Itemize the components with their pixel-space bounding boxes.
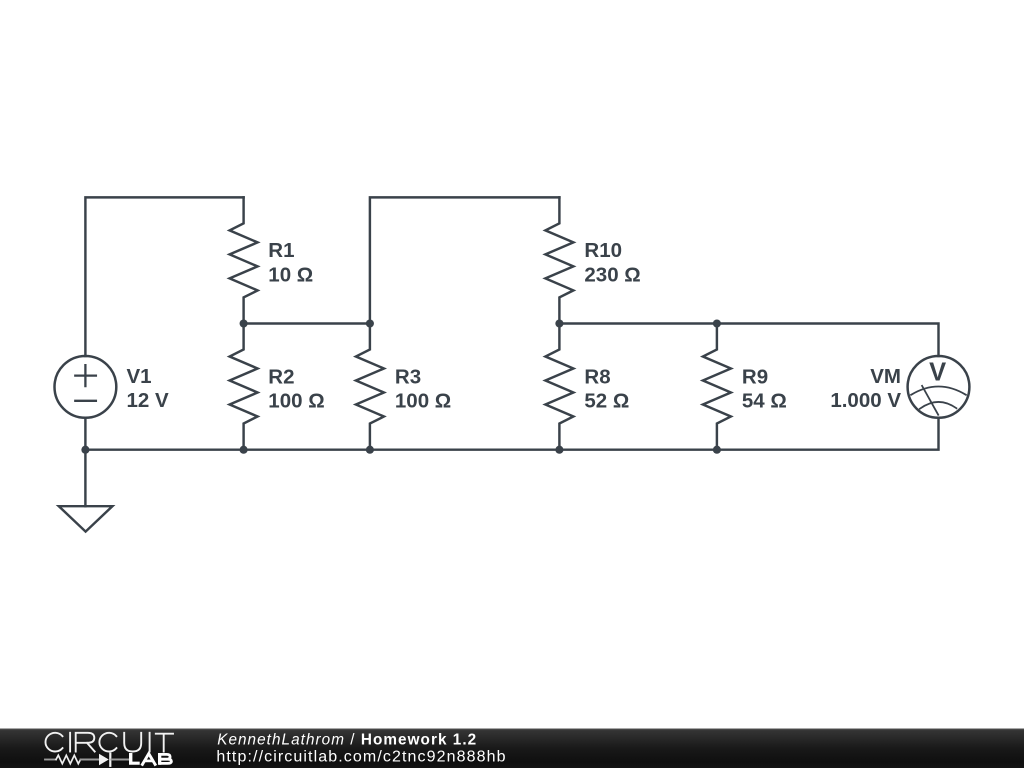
wire: middle net R8 top to R9 top to VM top [559,324,938,357]
svg-text:230 Ω: 230 Ω [584,264,640,287]
junction [713,319,721,327]
svg-text:R2: R2 [268,365,294,388]
svg-text:100 Ω: 100 Ω [395,390,451,413]
resistor R2 [230,324,258,450]
resistor R3 [356,324,384,450]
svg-text:KennethLathrom / Homework 1.2: KennethLathrom / Homework 1.2 [217,731,477,748]
svg-text:52 Ω: 52 Ω [584,390,629,413]
CircuitLab logo: LAB wordmark [129,753,171,765]
wire: middle net R2 top to R3 top [244,322,370,324]
svg-text:R1: R1 [268,239,294,262]
wire: top-right net R3 to R10 [370,197,560,323]
wire: bottom ground net [85,418,938,450]
junction [240,319,248,327]
label VM 1.000 V [830,365,901,412]
CircuitLab logo: CIRCUIT wordmark [45,733,173,752]
junction [713,446,721,454]
wire: V1 bottom lead [84,418,86,450]
svg-text:V1: V1 [127,365,152,388]
svg-text:R10: R10 [584,239,622,262]
voltage source V1 [55,356,117,418]
CircuitLab logo: resistor-diode symbol [45,754,129,766]
label R8 52 ohm [584,365,629,412]
junction [81,446,89,454]
label R9 54 ohm [742,365,787,412]
svg-text:http://circuitlab.com/c2tnc92n: http://circuitlab.com/c2tnc92n888hb [216,748,506,765]
junction [366,446,374,454]
resistor R8 [545,324,573,450]
ground [59,450,113,532]
svg-text:12 V: 12 V [127,389,169,412]
svg-text:100 Ω: 100 Ω [268,390,324,413]
svg-text:R9: R9 [742,365,768,388]
junction [240,446,248,454]
svg-text:R8: R8 [584,365,610,388]
wire: top-left net V1 to R1 [85,197,243,356]
label R3 100 ohm [395,365,451,412]
resistor R10 [545,197,573,323]
svg-text:VM: VM [870,365,901,388]
svg-text:V: V [929,358,946,386]
junction [366,319,374,327]
svg-text:10 Ω: 10 Ω [268,264,313,287]
label R10 230 ohm [584,239,640,286]
svg-text:54 Ω: 54 Ω [742,390,787,413]
junction [555,446,563,454]
label V1 12 V [127,365,169,412]
voltmeter VM [908,356,970,418]
svg-text:R3: R3 [395,365,421,388]
label R2 100 ohm [268,365,324,412]
resistor R1 [230,197,258,323]
footer bar [0,729,1024,768]
resistor R9 [703,324,731,450]
label R1 10 ohm [268,239,313,286]
svg-text:1.000 V: 1.000 V [830,389,901,412]
junction [555,319,563,327]
